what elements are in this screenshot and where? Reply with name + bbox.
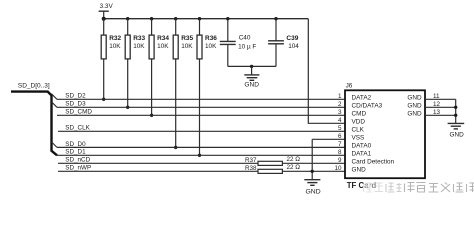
svg-text:C40: C40 <box>239 35 251 42</box>
svg-text:DATA1: DATA1 <box>352 151 372 158</box>
svg-text:SD_nCD: SD_nCD <box>65 157 90 164</box>
wire pin 11 stub <box>425 98 456 100</box>
svg-text:6: 6 <box>338 133 342 140</box>
svg-text:9: 9 <box>338 157 342 164</box>
node pin13 join <box>454 114 457 117</box>
wire pin 12 stub <box>425 106 456 108</box>
wire SD_D1 to pin 8 <box>57 154 345 156</box>
resistor R32 <box>101 19 106 100</box>
label TF Card <box>347 181 377 190</box>
svg-text:GND: GND <box>352 167 367 174</box>
svg-text:104: 104 <box>288 43 299 50</box>
svg-text:10K: 10K <box>181 43 193 50</box>
pin numbers 1-10 <box>334 93 342 172</box>
node R35/SD_D0 <box>174 146 177 149</box>
svg-text:CLK: CLK <box>352 127 365 134</box>
resistor R37 <box>258 161 282 165</box>
resistor R33 <box>125 19 130 108</box>
svg-text:C39: C39 <box>286 35 298 42</box>
ground (right pins) <box>448 123 465 128</box>
wire VSS to ground <box>311 139 313 179</box>
svg-text:VSS: VSS <box>352 135 365 142</box>
label R34 10K <box>157 35 169 50</box>
svg-text:22 Ω: 22 Ω <box>287 156 301 163</box>
watermark gray glyphs <box>364 183 474 193</box>
wire right gnd vertical <box>455 99 457 123</box>
svg-text:GND: GND <box>407 95 422 102</box>
node pin12 join <box>454 106 457 109</box>
resistor R34 <box>149 19 154 116</box>
svg-text:22 Ω: 22 Ω <box>287 164 301 171</box>
bus entry SD_D2 <box>52 94 58 100</box>
power 3.3V <box>99 11 109 19</box>
capacitor C40 <box>220 19 236 67</box>
wire VDD drop to pin 4 <box>308 19 345 124</box>
svg-text:1: 1 <box>338 93 342 100</box>
svg-text:GND: GND <box>407 103 422 110</box>
capacitor C39 <box>268 19 284 67</box>
label C40 10uF <box>238 35 256 51</box>
svg-text:CMD: CMD <box>352 111 367 118</box>
svg-text:TF Card: TF Card <box>347 181 377 190</box>
svg-text:GND: GND <box>244 81 259 88</box>
node R34/SD_CMD <box>150 114 153 117</box>
svg-text:SD_D1: SD_D1 <box>65 149 86 156</box>
svg-text:R33: R33 <box>133 35 145 42</box>
label C39 104 <box>286 35 299 50</box>
svg-text:10K: 10K <box>157 43 169 50</box>
bus SD_D[0..3] <box>11 92 57 156</box>
wire SD_D0 to pin 7 <box>57 146 345 148</box>
wire 3.3V rail <box>104 18 309 20</box>
svg-text:R34: R34 <box>157 35 169 42</box>
svg-text:SD_D[0..3]: SD_D[0..3] <box>18 82 50 89</box>
svg-text:SD_D3: SD_D3 <box>65 101 86 108</box>
bus entry SD_D0 <box>52 142 58 148</box>
svg-text:7: 7 <box>338 141 342 148</box>
wire R38 to pin 10 <box>282 170 345 172</box>
wire VSS pin 6 stub <box>312 138 345 140</box>
svg-text:J6: J6 <box>346 82 353 89</box>
pin numbers 11-13 <box>433 93 441 116</box>
bus entry SD_D3 <box>52 102 58 108</box>
svg-text:10K: 10K <box>109 43 121 50</box>
svg-text:DATA2: DATA2 <box>352 95 372 102</box>
svg-text:CD/DATA3: CD/DATA3 <box>352 103 383 110</box>
svg-text:R32: R32 <box>109 35 121 42</box>
wire SD_D3 to pin 2 <box>57 106 345 108</box>
svg-text:R38: R38 <box>245 165 257 172</box>
wire SD_D2 to pin 1 <box>57 98 345 100</box>
ground (capacitors) <box>244 66 259 80</box>
node R36/SD_D1 <box>198 154 201 157</box>
node cap gnd tap <box>250 65 253 68</box>
wire R37 to pin 9 <box>282 162 345 164</box>
resistor R35 <box>173 19 178 148</box>
svg-text:10K: 10K <box>133 43 145 50</box>
svg-text:SD_D0: SD_D0 <box>65 141 86 148</box>
svg-text:Card Detection: Card Detection <box>352 159 395 166</box>
label R36 10K <box>205 35 217 50</box>
node R33/SD_D3 <box>126 106 129 109</box>
wire SD_CMD to pin 3 <box>57 114 345 116</box>
svg-text:GND: GND <box>450 131 465 138</box>
svg-text:10 µ F: 10 µ F <box>238 44 256 51</box>
J6 left pin names <box>352 95 395 174</box>
label R33 10K <box>133 35 145 50</box>
wire SD_nWP to R38 <box>58 170 258 172</box>
wire pin 13 stub <box>425 114 456 116</box>
svg-text:2: 2 <box>338 101 342 108</box>
node rail junctions <box>102 17 278 21</box>
wire SD_CLK to pin 5 <box>58 130 345 132</box>
J6 right pin names GND x3 <box>407 95 422 118</box>
ground (VSS bottom) <box>304 180 320 186</box>
wire capacitor common node <box>228 65 276 67</box>
label R32 10K <box>109 35 121 50</box>
svg-text:10K: 10K <box>205 43 217 50</box>
wire SD_nCD to R37 <box>58 162 258 164</box>
node VSS/pin10 gnd junction <box>311 170 314 173</box>
label R35 10K <box>181 35 193 50</box>
svg-text:DATA0: DATA0 <box>352 143 372 150</box>
svg-text:10: 10 <box>334 165 342 172</box>
svg-text:R37: R37 <box>245 157 257 164</box>
svg-text:VDD: VDD <box>352 119 366 126</box>
svg-text:4: 4 <box>338 117 342 124</box>
node R32/SD_D2 <box>102 98 105 101</box>
svg-text:SD_nWP: SD_nWP <box>65 165 91 172</box>
svg-text:3: 3 <box>338 109 342 116</box>
svg-text:8: 8 <box>338 149 342 156</box>
svg-text:SD_CLK: SD_CLK <box>65 125 90 132</box>
svg-text:R36: R36 <box>205 35 217 42</box>
svg-text:SD_CMD: SD_CMD <box>65 109 92 116</box>
svg-text:SD_D2: SD_D2 <box>65 93 86 100</box>
svg-text:GND: GND <box>306 189 321 196</box>
resistor R38 <box>258 169 282 173</box>
svg-text:5: 5 <box>338 125 342 132</box>
resistor R36 <box>197 19 202 156</box>
connector J6 box <box>345 90 425 178</box>
svg-text:GND: GND <box>407 111 422 118</box>
svg-text:3.3V: 3.3V <box>100 3 114 10</box>
svg-text:R35: R35 <box>181 35 193 42</box>
